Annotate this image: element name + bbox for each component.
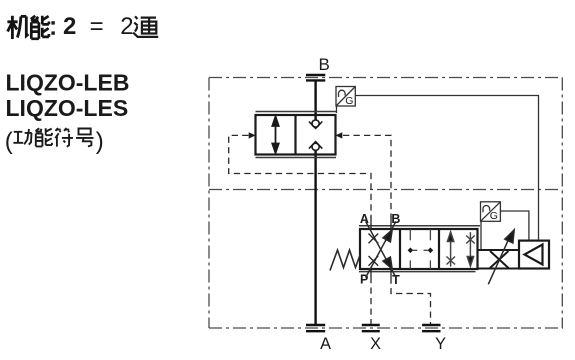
wire A main line xyxy=(314,150,316,325)
check valve lower xyxy=(309,142,322,151)
boundary top xyxy=(209,77,562,79)
stub A xyxy=(370,217,372,230)
svg-text:B: B xyxy=(319,55,330,74)
stub P xyxy=(370,269,372,277)
square3 down arrow xyxy=(467,232,473,266)
svg-text:2: 2 xyxy=(63,13,76,40)
transducer G2 box xyxy=(481,202,501,250)
svg-text:A: A xyxy=(320,335,331,353)
top valve mounting line lower xyxy=(256,157,337,159)
svg-text:Y: Y xyxy=(435,335,446,353)
spring xyxy=(330,250,360,271)
pilot arrow left xyxy=(249,132,256,138)
check valve upper xyxy=(309,120,322,128)
svg-text:G: G xyxy=(345,95,353,107)
boundary mid line xyxy=(209,189,562,191)
square1 diagonal A-T xyxy=(366,221,396,277)
svg-text:2: 2 xyxy=(120,13,133,40)
port B symbol xyxy=(306,75,325,80)
stub B xyxy=(390,217,392,230)
wire G1 to pilot box xyxy=(355,96,538,241)
svg-text:LIQZO-LES: LIQZO-LES xyxy=(6,95,129,121)
boundary right xyxy=(561,78,563,329)
bottom valve mounting line upper xyxy=(359,225,480,227)
boundary left xyxy=(208,78,210,329)
top valve mounting line upper xyxy=(256,111,338,113)
CJK 能 small xyxy=(36,128,52,146)
svg-text:X: X xyxy=(370,335,381,353)
title colon xyxy=(51,21,54,35)
pilot symbol box with triangle xyxy=(519,241,549,269)
boundary dash-dot rectangle xyxy=(209,78,563,329)
proportional solenoid box xyxy=(478,250,520,269)
square1 diagonal P-B xyxy=(366,221,396,277)
CJK 号 xyxy=(76,129,94,147)
restriction X upper-left sq1 xyxy=(369,234,379,244)
CJK 功 xyxy=(13,129,31,145)
pilot line D1 (left, to port A of pilot valve) xyxy=(229,135,371,217)
restriction X on down arrow xyxy=(466,236,475,244)
title CJK 能 xyxy=(31,16,49,39)
drain dashed P to X xyxy=(370,277,372,325)
transducer G1 box xyxy=(336,87,355,114)
port X symbol xyxy=(362,325,380,331)
bottom valve mounting line lower xyxy=(359,271,476,273)
square2 right closed-port arrow xyxy=(424,248,434,254)
square3 up arrow xyxy=(447,232,453,267)
svg-text:(: ( xyxy=(5,128,13,155)
double arrow in left square xyxy=(272,117,278,154)
svg-text:B: B xyxy=(391,212,400,226)
wire G2 to pilot box xyxy=(500,211,529,241)
drain dashed T to Y xyxy=(391,278,431,326)
svg-text:LIQZO-LEB: LIQZO-LEB xyxy=(6,69,130,95)
svg-text:): ) xyxy=(96,128,104,155)
port Y symbol xyxy=(422,325,440,331)
svg-text:T: T xyxy=(392,273,400,287)
wire B to valve xyxy=(314,80,316,120)
proportional arrow xyxy=(488,230,514,284)
port A symbol xyxy=(306,325,325,331)
stub T xyxy=(390,269,392,278)
square2 stubs xyxy=(410,229,430,269)
svg-text:G: G xyxy=(490,210,498,222)
pilot line D2 (right, to port B of pilot valve) xyxy=(343,135,391,217)
CJK 符 xyxy=(55,128,73,147)
restriction X lower-left sq1 xyxy=(369,256,379,266)
svg-text:=: = xyxy=(90,13,104,40)
boundary bottom xyxy=(209,327,563,329)
title CJK 机 xyxy=(7,16,28,39)
square2 left closed-port arrow xyxy=(408,248,418,254)
pilot arrow right xyxy=(336,132,343,138)
restriction X on up arrow xyxy=(447,257,456,265)
pilot valve body xyxy=(360,229,478,269)
title CJK 通 xyxy=(133,16,158,37)
top valve body xyxy=(256,115,336,155)
